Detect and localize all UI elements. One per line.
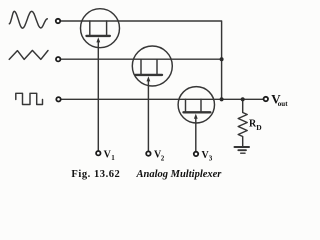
svg-text:3: 3 bbox=[209, 155, 213, 163]
svg-text:Analog Multiplexer: Analog Multiplexer bbox=[136, 169, 223, 180]
svg-text:Fig. 13.62: Fig. 13.62 bbox=[71, 169, 120, 180]
svg-text:D: D bbox=[256, 123, 262, 132]
svg-text:out: out bbox=[278, 100, 288, 108]
svg-text:1: 1 bbox=[111, 154, 115, 162]
svg-text:2: 2 bbox=[161, 154, 165, 162]
